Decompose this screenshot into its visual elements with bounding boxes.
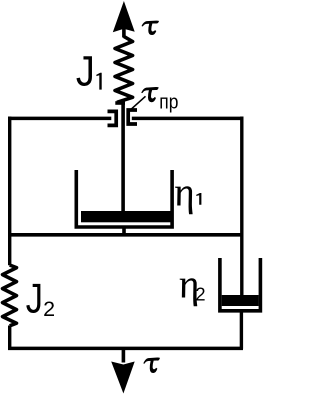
top load arrow tau: [113, 1, 135, 38]
svg-text:J: J: [76, 46, 95, 95]
center rod through slider down to dashpot eta1 piston: [121, 102, 125, 215]
svg-text:2: 2: [195, 284, 205, 305]
dashpot eta1 : stub from cup bottom to middle line: [122, 227, 126, 235]
bottom load arrow tau: [111, 349, 135, 394]
frame bottom line: [8, 347, 243, 351]
spring J1: [115, 37, 133, 103]
dashpot eta2 : rod below cup to bottom line: [240, 310, 243, 349]
svg-text:J: J: [26, 275, 43, 322]
dashpot eta2 : piston: [222, 295, 259, 306]
dashpot eta1 : piston: [81, 211, 171, 222]
label tau (bottom): [143, 357, 159, 373]
frame left line (lower part, spring J2 to bottom corner): [8, 326, 11, 349]
label tau_pr with leader line: [128, 87, 179, 114]
friction slider tau_pr : right bracket: [128, 110, 137, 124]
svg-text:пр: пр: [159, 91, 178, 114]
friction slider tau_pr : left bracket: [108, 111, 117, 125]
svg-text:2: 2: [43, 297, 55, 321]
rod jog from spring J1 to slider rod: [115, 101, 125, 105]
frame top line (left segment): [8, 117, 111, 121]
dashpot eta1 : cup: [76, 170, 172, 227]
frame top line (right segment): [132, 117, 244, 121]
dashpot eta2 : cup: [220, 258, 261, 311]
spring J2: [3, 265, 17, 326]
middle line: [8, 233, 243, 237]
frame left line (upper part, top corner to spring J2): [8, 117, 11, 266]
frame right line (top corner down to dashpot eta2 piston): [240, 117, 243, 297]
label tau (top): [142, 21, 159, 35]
